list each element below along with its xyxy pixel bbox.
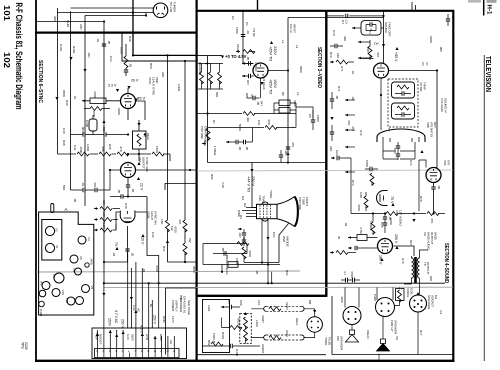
svg-text:HOR: HOR	[285, 330, 289, 338]
svg-text:COIL: COIL	[410, 288, 414, 295]
svg-text:R50: R50	[149, 63, 153, 69]
svg-text:6800: 6800	[299, 66, 303, 73]
svg-text:470: 470	[93, 182, 97, 187]
tube bottom lead	[128, 88, 145, 120]
resistor R38	[100, 218, 112, 222]
more junction dots	[242, 10, 244, 12]
svg-text:390: 390	[343, 36, 347, 41]
svg-text:10K: 10K	[102, 212, 106, 217]
svg-text:.02: .02	[437, 185, 441, 190]
capacitor C26	[355, 246, 357, 250]
svg-text:250 V: 250 V	[121, 319, 125, 329]
svg-text:220K: 220K	[117, 108, 121, 115]
svg-text:4.7: 4.7	[343, 271, 347, 276]
cap and arrow top	[221, 306, 225, 309]
svg-text:.05: .05	[131, 188, 135, 193]
grid wire	[360, 58, 374, 60]
svg-text:C80: C80	[239, 300, 243, 306]
svg-text:C61: C61	[257, 120, 261, 126]
wire V9 to T8	[394, 246, 415, 256]
svg-text:V6A: V6A	[138, 157, 142, 163]
electrolytic can C300	[89, 119, 97, 131]
svg-text:27K: 27K	[119, 147, 123, 152]
svg-text:R302: R302	[72, 46, 76, 54]
svg-text:HORIZ: HORIZ	[261, 344, 265, 354]
svg-text:TPS: TPS	[21, 342, 25, 349]
svg-text:3.3 V: 3.3 V	[108, 84, 117, 88]
svg-text:TELEVISION: TELEVISION	[484, 56, 491, 92]
svg-text:KINE: KINE	[237, 210, 241, 217]
svg-text:39K: 39K	[102, 200, 106, 205]
socket circle V9	[82, 285, 90, 293]
svg-text:IN: IN	[337, 236, 341, 239]
long wire bus y283	[104, 282, 445, 284]
svg-text:R-F Chassis 81, Schematic Diag: R-F Chassis 81, Schematic Diagram	[14, 3, 24, 110]
wire long vertical	[84, 16, 86, 207]
svg-text:SYNC INV: SYNC INV	[154, 211, 158, 225]
svg-text:220: 220	[336, 53, 340, 58]
svg-text:2228: 2228	[24, 342, 28, 350]
audio amp tube V8B half	[377, 191, 384, 206]
svg-text:FOR 12": FOR 12"	[390, 320, 394, 332]
node dot	[145, 14, 147, 16]
bottom wire in box	[203, 345, 261, 347]
svg-text:47: 47	[250, 94, 254, 98]
svg-text:8.2K: 8.2K	[102, 223, 106, 229]
svg-text:W8: W8	[40, 281, 44, 286]
left power box	[166, 288, 197, 355]
svg-text:V8B: V8B	[426, 122, 430, 128]
resistor R5 box	[279, 100, 290, 106]
svg-text:20 V: 20 V	[141, 237, 145, 245]
svg-text:GND: GND	[162, 316, 166, 324]
svg-text:102: 102	[2, 52, 11, 69]
svg-text:R70: R70	[329, 52, 333, 58]
svg-text:.05: .05	[107, 40, 111, 45]
svg-text:C72: C72	[359, 130, 363, 136]
bus wire	[122, 33, 197, 61]
svg-text:1500: 1500	[316, 115, 320, 122]
svg-text:ANT: ANT	[79, 24, 83, 30]
svg-text:100K: 100K	[92, 111, 96, 118]
brightness cluster lower left	[203, 244, 280, 265]
capacitor C2	[242, 62, 246, 65]
capacitor C20	[346, 14, 348, 18]
svg-text:.01: .01	[351, 70, 355, 75]
svg-text:.01: .01	[96, 38, 100, 43]
svg-text:A: A	[65, 207, 68, 212]
cap below ratio tube	[431, 187, 435, 189]
svg-text:6AQ5: 6AQ5	[434, 232, 438, 240]
svg-text:V7A 6AU6: V7A 6AU6	[440, 98, 444, 112]
cap below V10B	[125, 249, 129, 251]
bottom caps cluster	[242, 233, 246, 235]
capacitor C38	[95, 188, 97, 192]
resistor R34	[77, 152, 89, 156]
svg-text:H-1: H-1	[485, 5, 492, 15]
resistor R31	[124, 56, 128, 68]
svg-text:R47: R47	[162, 246, 166, 252]
phono jack socket	[376, 298, 395, 317]
svg-text:CHASSIS 81: CHASSIS 81	[183, 296, 187, 314]
svg-text:.05: .05	[245, 146, 249, 151]
svg-text:SECTION 4–SOUND: SECTION 4–SOUND	[443, 243, 449, 283]
svg-text:C33: C33	[109, 56, 113, 62]
svg-text:V10A: V10A	[148, 77, 152, 84]
socket circle V7	[76, 297, 84, 305]
svg-text:+65V TO: +65V TO	[269, 46, 273, 61]
tube V6A sync sep	[121, 163, 136, 178]
caps stack under V8B	[383, 217, 387, 219]
svg-text:V2: V2	[55, 228, 59, 232]
wire	[71, 7, 154, 9]
svg-text:.01: .01	[351, 96, 355, 101]
svg-text:470K: 470K	[93, 91, 97, 98]
svg-text:.05: .05	[73, 198, 77, 203]
wire tube V2 top	[243, 63, 253, 65]
sound section bottom rail	[332, 296, 453, 355]
inner box wire top	[288, 18, 384, 163]
svg-text:TO POWER: TO POWER	[179, 296, 183, 313]
svg-text:70 V: 70 V	[390, 196, 394, 204]
svg-text:22 V: 22 V	[140, 183, 144, 191]
svg-text:047: 047	[246, 80, 250, 85]
yoke coil capsule 2	[264, 335, 304, 340]
svg-text:C74: C74	[409, 160, 413, 166]
svg-text:230 V: 230 V	[251, 176, 255, 186]
svg-text:VERT: VERT	[261, 315, 265, 323]
svg-text:1 MEG: 1 MEG	[369, 221, 373, 231]
svg-text:C300: C300	[85, 120, 89, 128]
left border	[35, 0, 37, 362]
svg-text:R49: R49	[128, 36, 132, 42]
contrast pot vertical	[206, 128, 210, 140]
svg-text:.06: .06	[238, 146, 242, 151]
wires around V10B	[116, 197, 147, 248]
node	[127, 133, 129, 135]
svg-text:Y10: Y10	[65, 298, 69, 304]
svg-text:47K: 47K	[430, 218, 434, 223]
wire ratio to bus	[413, 212, 415, 214]
svg-text:R7: R7	[212, 120, 216, 124]
svg-text:.01: .01	[81, 182, 85, 187]
svg-text:SPEAKER: SPEAKER	[427, 295, 431, 310]
socket circle V6	[70, 255, 78, 263]
svg-text:470K: 470K	[248, 250, 252, 257]
svg-text:4.5 V: 4.5 V	[140, 325, 144, 334]
svg-text:2W: 2W	[188, 238, 192, 243]
svg-text:.05: .05	[129, 63, 133, 68]
svg-text:V8: V8	[52, 274, 56, 278]
svg-text:47K: 47K	[347, 120, 351, 125]
svg-text:250V: 250V	[131, 334, 135, 341]
capacitor C36 top	[121, 194, 123, 198]
svg-text:PEAKING: PEAKING	[198, 62, 202, 76]
winding 1	[392, 82, 415, 98]
svg-text:PLUG: PLUG	[328, 337, 332, 346]
heavy bus from top	[133, 0, 197, 55]
svg-text:L401: L401	[207, 305, 211, 312]
svg-text:4700: 4700	[174, 226, 178, 233]
resistor R6 box	[279, 108, 290, 114]
svg-text:VIDEO: VIDEO	[254, 62, 258, 72]
svg-text:47K: 47K	[178, 219, 182, 224]
svg-text:.01: .01	[246, 30, 250, 35]
svg-text:C76: C76	[401, 258, 405, 264]
center vertical divider	[196, 0, 198, 361]
svg-text:MEG: MEG	[146, 133, 150, 141]
svg-text:C301: C301	[59, 44, 63, 52]
svg-text:PICTURE: PICTURE	[298, 197, 302, 210]
resistor R8	[265, 126, 277, 130]
capacitor on x104	[102, 44, 106, 46]
resistor inside	[137, 134, 141, 146]
svg-text:C400: C400	[39, 309, 43, 317]
ion trap bumps	[262, 202, 268, 221]
svg-text:4.7 V AC: 4.7 V AC	[114, 310, 118, 324]
svg-text:C63: C63	[272, 232, 276, 238]
svg-text:117: 117	[341, 20, 345, 25]
wires dome	[419, 160, 426, 211]
wire down from 264	[222, 265, 272, 284]
neck bottom leads	[262, 219, 268, 284]
svg-text:INPUT: INPUT	[293, 24, 297, 33]
svg-text:R82: R82	[207, 340, 211, 346]
svg-text:P400: P400	[373, 294, 377, 301]
svg-text:M1: M1	[434, 295, 438, 299]
svg-text:6T8 RATIO: 6T8 RATIO	[430, 122, 434, 138]
svg-text:.005: .005	[439, 46, 443, 52]
wire sound input	[326, 15, 383, 17]
svg-text:4.5 MC: 4.5 MC	[419, 82, 423, 93]
right border	[452, 10, 454, 361]
svg-text:TO V1B: TO V1B	[169, 2, 173, 13]
svg-text:.047: .047	[87, 52, 91, 58]
wire	[58, 153, 140, 155]
svg-text:4.7M: 4.7M	[359, 227, 363, 234]
svg-text:PICTURE: PICTURE	[200, 126, 204, 139]
svg-text:BRIGHTNESS: BRIGHTNESS	[225, 255, 229, 275]
svg-text:C23: C23	[335, 150, 339, 156]
horiz coil between	[230, 326, 242, 330]
svg-text:.0047: .0047	[81, 126, 85, 134]
dashed IF transformer assembly	[388, 79, 418, 127]
discriminator dome T7	[377, 129, 425, 142]
arrow left of can	[352, 27, 356, 30]
svg-text:.05: .05	[117, 189, 121, 194]
capacitor C23	[330, 132, 334, 134]
sound IF can T1	[361, 21, 381, 35]
resistor R32	[90, 107, 102, 111]
svg-text:22K: 22K	[329, 146, 333, 151]
resistor R42 1W	[183, 243, 187, 255]
plate resistor box R33	[133, 131, 147, 149]
svg-text:.05: .05	[256, 101, 260, 106]
output transformer T8	[412, 258, 414, 278]
svg-text:.05: .05	[131, 252, 135, 257]
resistor R26	[336, 251, 348, 255]
svg-text:1W: 1W	[374, 42, 379, 46]
svg-text:DEFL: DEFL	[295, 318, 299, 326]
wire tube to 288	[268, 70, 288, 72]
more scattered arrows	[69, 57, 72, 60]
svg-text:C30: C30	[62, 128, 66, 134]
anode lead diagonal	[279, 224, 289, 263]
aux speaker socket	[343, 307, 361, 325]
svg-text:250V: 250V	[108, 318, 112, 327]
capacitor C5	[311, 120, 315, 122]
grid leads	[242, 208, 257, 217]
socket circle X1	[39, 290, 46, 297]
svg-text:+85 V: +85 V	[394, 52, 398, 62]
svg-text:6T8: 6T8	[447, 160, 451, 166]
svg-text:.04: .04	[112, 252, 116, 257]
svg-text:470: 470	[291, 142, 295, 147]
svg-text:470K: 470K	[350, 271, 354, 278]
resistor R21	[336, 60, 348, 64]
wires to tube	[113, 209, 121, 231]
tube V1 tuner	[153, 3, 168, 18]
svg-text:ION: ION	[258, 196, 262, 201]
svg-text:C5: C5	[308, 114, 312, 118]
crt bell	[277, 197, 295, 227]
svg-text:OUTPUT: OUTPUT	[426, 262, 430, 275]
resistor R12 box	[228, 262, 238, 268]
focus box	[203, 300, 230, 353]
svg-text:C44: C44	[151, 232, 155, 238]
svg-text:M8: M8	[308, 300, 312, 304]
svg-text:OUTPUT: OUTPUT	[430, 232, 434, 245]
svg-text:L81: L81	[257, 300, 261, 305]
svg-text:C25: C25	[380, 222, 384, 228]
capacitor C7	[226, 141, 230, 144]
bottom border	[35, 360, 455, 362]
svg-text:V9: V9	[90, 286, 94, 290]
wire bottom of video box	[208, 56, 327, 163]
svg-text:V1: V1	[55, 245, 59, 249]
wire ratio det top	[434, 167, 438, 169]
svg-text:.1: .1	[291, 126, 295, 129]
svg-text:V7: V7	[425, 62, 429, 66]
wire can to tube	[381, 11, 384, 63]
svg-text:12AU7: 12AU7	[150, 211, 154, 221]
svg-text:R60: R60	[203, 140, 207, 146]
terminals	[98, 353, 175, 358]
svg-text:T1: T1	[368, 31, 372, 35]
svg-text:.047: .047	[238, 232, 242, 238]
assembly box	[92, 328, 187, 359]
sound bus wire	[351, 213, 445, 215]
svg-text:R64: R64	[285, 270, 289, 276]
svg-text:GND: GND	[159, 334, 163, 342]
svg-text:3.3K: 3.3K	[221, 182, 225, 188]
svg-text:C71: C71	[340, 66, 344, 72]
svg-text:R71: R71	[337, 86, 341, 92]
svg-text:C41: C41	[73, 145, 77, 151]
svg-text:100K: 100K	[120, 47, 124, 54]
svg-text:1500: 1500	[235, 27, 239, 34]
tube V10A sync amp	[121, 94, 136, 109]
svg-text:–46V: –46V	[95, 332, 99, 341]
svg-text:C1: C1	[231, 16, 235, 20]
fastener clip	[51, 204, 54, 213]
svg-text:6.8K: 6.8K	[359, 192, 363, 198]
svg-text:20 V: 20 V	[131, 79, 139, 83]
svg-text:56K: 56K	[62, 185, 66, 190]
resistor R41	[183, 220, 187, 232]
arrow	[82, 100, 86, 103]
svg-text:R48: R48	[62, 140, 66, 146]
svg-text:.02: .02	[344, 222, 348, 227]
svg-text:R5: R5	[281, 92, 285, 96]
svg-text:47K: 47K	[376, 52, 380, 57]
svg-text:DET: DET	[433, 122, 437, 128]
svg-text:BOOST: BOOST	[99, 334, 103, 345]
svg-text:460: 460	[246, 117, 250, 122]
svg-text:V9: V9	[423, 232, 427, 236]
svg-text:T7: T7	[387, 128, 391, 132]
tuner tube pins	[157, 7, 165, 15]
svg-text:TO RF: TO RF	[252, 28, 256, 37]
svg-text:47K: 47K	[242, 236, 246, 241]
svg-text:SECTION 3–VIDEO: SECTION 3–VIDEO	[316, 47, 322, 88]
deflection box top divider	[197, 295, 328, 297]
top border right part	[196, 10, 454, 12]
wire	[85, 13, 146, 16]
svg-text:SOCKET: SOCKET	[431, 295, 435, 308]
svg-text:85 V: 85 V	[137, 96, 146, 101]
wire plate supply	[242, 11, 244, 64]
capacitor C31	[83, 132, 85, 136]
capacitor C22	[330, 99, 334, 101]
speaker 2 horn	[381, 339, 386, 344]
sound input cap	[337, 156, 339, 160]
svg-text:L2: L2	[295, 45, 299, 49]
resistor R37	[100, 207, 112, 211]
svg-text:R75: R75	[419, 196, 423, 202]
svg-text:16RP4: 16RP4	[305, 197, 309, 207]
svg-text:SPEAKER: SPEAKER	[340, 336, 344, 351]
resistor R3	[209, 72, 213, 84]
svg-text:C1: C1	[245, 22, 249, 26]
svg-text:TUBE: TUBE	[302, 197, 306, 205]
tube V7A sound if	[374, 63, 389, 78]
svg-text:100K: 100K	[235, 258, 239, 265]
svg-text:YOKE: YOKE	[269, 190, 273, 198]
width coil	[244, 317, 248, 329]
crt neck	[257, 204, 278, 218]
socket circle C400	[39, 301, 45, 307]
svg-text:V5: V5	[72, 268, 76, 272]
svg-text:.05: .05	[246, 56, 250, 61]
svg-text:C40: C40	[124, 203, 128, 209]
cap C50 at right border	[446, 19, 450, 21]
resistor R35	[99, 152, 111, 156]
svg-text:66K: 66K	[267, 120, 271, 125]
svg-text:G2: G2	[243, 203, 247, 207]
panel outline with notch	[39, 212, 94, 315]
svg-text:220V: 220V	[273, 46, 277, 55]
capacitor inside can	[370, 22, 372, 26]
svg-text:PIX I-F: PIX I-F	[289, 24, 293, 34]
right tall resistors 18K 47K	[168, 55, 186, 220]
voltage +0 TO 4.5V	[197, 54, 222, 56]
svg-text:R46: R46	[65, 100, 69, 106]
socket circle V1	[45, 243, 54, 252]
svg-text:101: 101	[2, 5, 11, 22]
svg-text:100V: 100V	[273, 79, 277, 88]
resistor R10	[242, 247, 246, 259]
